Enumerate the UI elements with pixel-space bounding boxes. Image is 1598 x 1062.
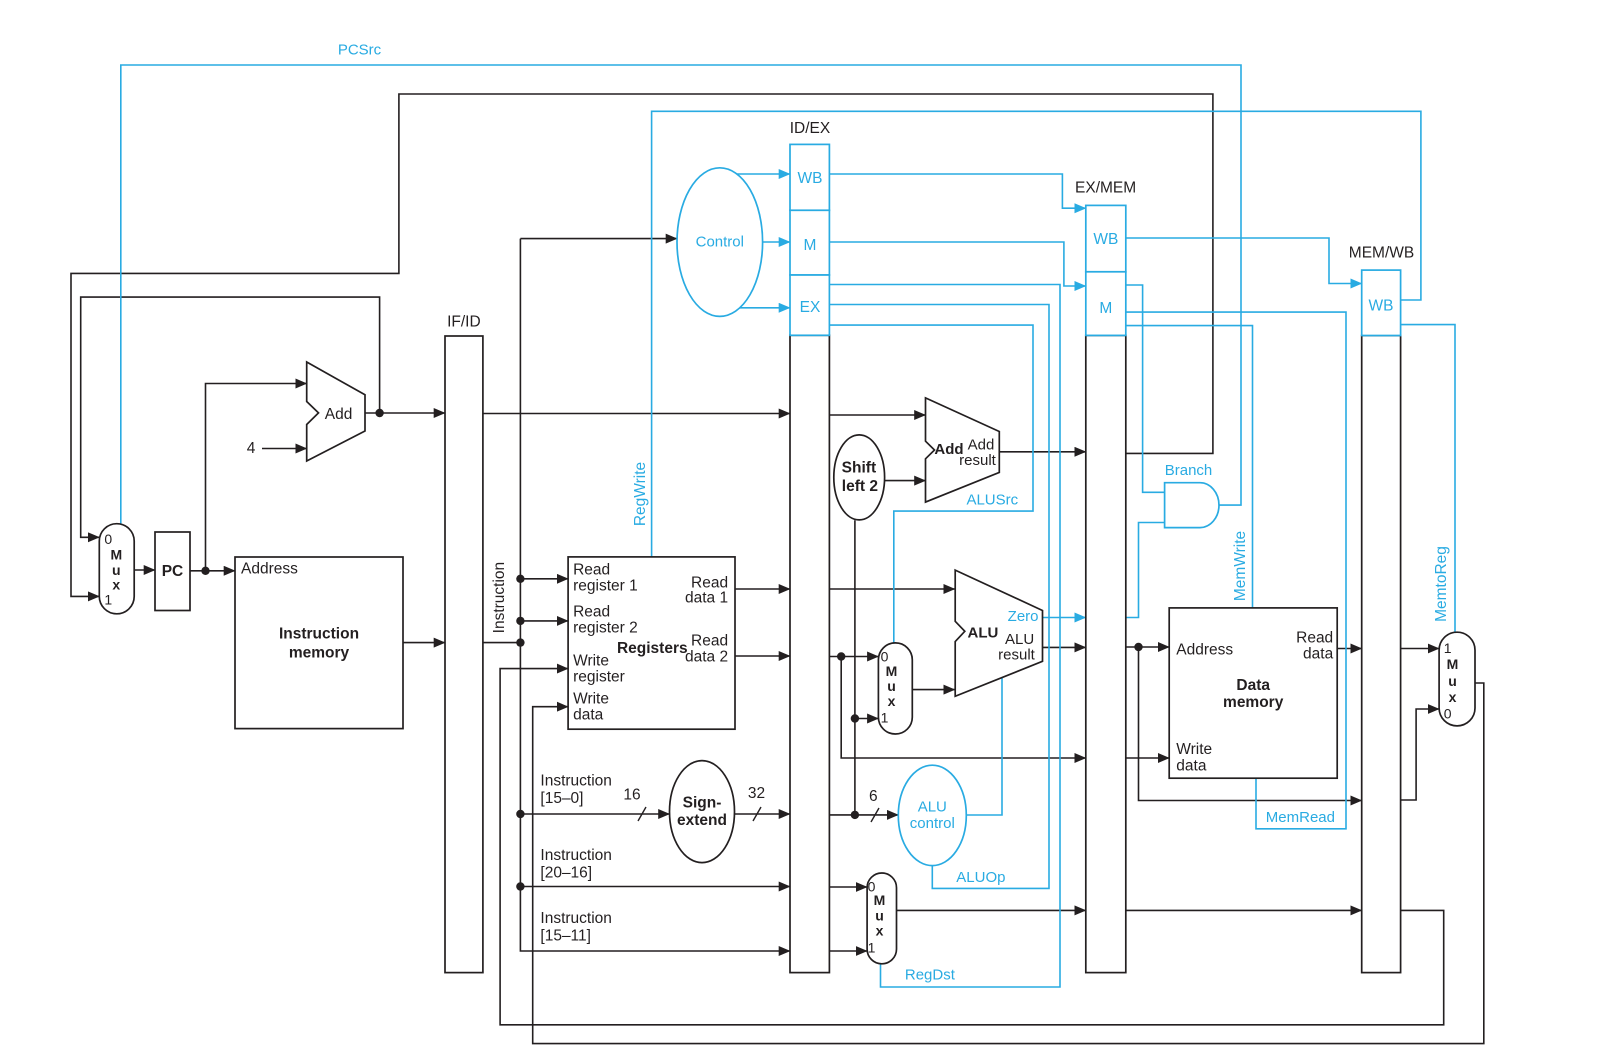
svg-text:left 2: left 2 xyxy=(842,478,878,495)
svg-text:result: result xyxy=(959,452,997,469)
svg-text:WB: WB xyxy=(1093,231,1118,248)
svg-text:MEM/WB: MEM/WB xyxy=(1349,245,1414,262)
svg-text:Branch: Branch xyxy=(1165,462,1213,479)
svg-text:data: data xyxy=(1176,757,1207,774)
svg-text:16: 16 xyxy=(623,787,640,804)
svg-text:MemWrite: MemWrite xyxy=(1232,531,1249,601)
svg-text:EX: EX xyxy=(800,299,821,316)
svg-text:ALUOp: ALUOp xyxy=(956,869,1005,886)
svg-text:RegDst: RegDst xyxy=(905,966,956,983)
svg-text:M: M xyxy=(1447,656,1459,672)
svg-text:Write: Write xyxy=(573,653,609,670)
svg-text:control: control xyxy=(910,815,955,832)
svg-text:data 2: data 2 xyxy=(685,649,728,666)
svg-text:EX/MEM: EX/MEM xyxy=(1075,180,1136,197)
svg-text:Instruction: Instruction xyxy=(491,562,508,634)
svg-text:x: x xyxy=(876,923,884,939)
svg-text:1: 1 xyxy=(868,940,876,956)
svg-text:Instruction: Instruction xyxy=(279,626,359,643)
svg-text:M: M xyxy=(874,892,886,908)
svg-text:[15–11]: [15–11] xyxy=(540,928,591,945)
svg-text:4: 4 xyxy=(247,440,256,457)
svg-text:ALU: ALU xyxy=(918,798,947,815)
svg-text:6: 6 xyxy=(869,788,878,805)
svg-text:M: M xyxy=(804,237,817,254)
svg-text:M: M xyxy=(110,547,122,563)
svg-text:RegWrite: RegWrite xyxy=(632,462,649,526)
svg-text:register: register xyxy=(573,669,625,686)
svg-text:ALU: ALU xyxy=(967,625,998,642)
svg-text:Data: Data xyxy=(1236,677,1270,694)
svg-text:Address: Address xyxy=(241,561,298,578)
svg-text:data: data xyxy=(573,707,604,724)
svg-text:data 1: data 1 xyxy=(685,590,728,607)
svg-text:u: u xyxy=(875,908,884,924)
svg-text:Write: Write xyxy=(573,691,609,708)
svg-text:Read: Read xyxy=(573,562,610,579)
svg-text:x: x xyxy=(888,693,896,709)
svg-text:register 1: register 1 xyxy=(573,578,638,595)
svg-text:Instruction: Instruction xyxy=(540,910,612,927)
svg-text:Zero: Zero xyxy=(1008,608,1039,625)
svg-text:extend: extend xyxy=(677,812,727,829)
svg-text:0: 0 xyxy=(104,531,112,547)
svg-text:Write: Write xyxy=(1176,741,1212,758)
svg-text:IF/ID: IF/ID xyxy=(447,314,481,331)
svg-text:[20–16]: [20–16] xyxy=(540,865,592,882)
svg-text:register 2: register 2 xyxy=(573,620,638,637)
svg-text:MemtoReg: MemtoReg xyxy=(1433,546,1450,622)
svg-text:PCSrc: PCSrc xyxy=(338,42,382,59)
svg-text:memory: memory xyxy=(289,645,350,662)
svg-text:x: x xyxy=(112,577,120,593)
svg-text:Read: Read xyxy=(691,633,728,650)
svg-text:Add: Add xyxy=(325,406,353,423)
svg-text:32: 32 xyxy=(748,785,765,802)
svg-text:memory: memory xyxy=(1223,694,1284,711)
svg-text:Instruction: Instruction xyxy=(540,773,612,790)
svg-text:Control: Control xyxy=(696,234,744,251)
svg-text:1: 1 xyxy=(881,710,889,726)
svg-text:Instruction: Instruction xyxy=(540,847,612,864)
svg-text:PC: PC xyxy=(162,563,184,580)
svg-text:Read: Read xyxy=(1296,630,1333,647)
svg-text:result: result xyxy=(998,646,1036,663)
svg-text:x: x xyxy=(1449,689,1457,705)
svg-text:1: 1 xyxy=(1444,640,1452,656)
svg-text:ID/EX: ID/EX xyxy=(790,120,831,137)
svg-text:u: u xyxy=(1448,673,1457,689)
svg-text:M: M xyxy=(886,663,898,679)
svg-text:0: 0 xyxy=(1444,706,1452,722)
svg-text:ALUSrc: ALUSrc xyxy=(966,491,1018,508)
svg-text:Add: Add xyxy=(968,436,995,453)
svg-text:Sign-: Sign- xyxy=(683,795,722,812)
svg-text:MemRead: MemRead xyxy=(1266,809,1335,826)
svg-text:WB: WB xyxy=(1369,297,1394,314)
svg-text:Registers: Registers xyxy=(617,640,688,657)
svg-text:Shift: Shift xyxy=(842,459,876,476)
svg-text:WB: WB xyxy=(798,170,823,187)
svg-text:M: M xyxy=(1099,300,1112,317)
svg-text:1: 1 xyxy=(104,592,112,608)
svg-text:Read: Read xyxy=(573,604,610,621)
svg-text:u: u xyxy=(887,678,896,694)
svg-text:Address: Address xyxy=(1176,642,1233,659)
svg-text:[15–0]: [15–0] xyxy=(540,790,583,807)
svg-text:data: data xyxy=(1303,646,1334,663)
